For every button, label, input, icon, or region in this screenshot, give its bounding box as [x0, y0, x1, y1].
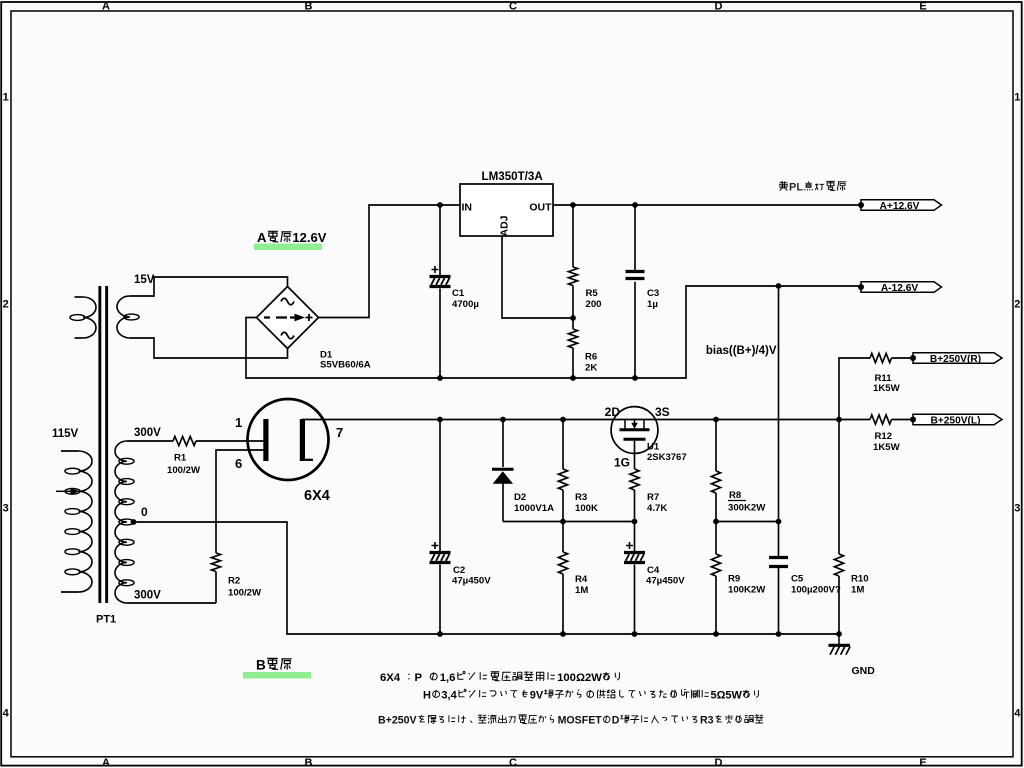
svg-text:B+250V(L): B+250V(L) — [930, 415, 980, 426]
wire ADJ pin — [502, 236, 573, 318]
svg-text:D: D — [715, 1, 723, 13]
junction C4 bottom — [632, 631, 638, 637]
svg-text:0: 0 — [141, 505, 148, 519]
svg-text:100Ω2W: 100Ω2W — [557, 672, 602, 684]
junction bias to A- line — [776, 283, 782, 289]
svg-text:4: 4 — [1014, 708, 1021, 720]
svg-text:1G: 1G — [614, 456, 630, 470]
svg-text:6: 6 — [235, 456, 242, 471]
resistor R6 — [568, 329, 577, 348]
svg-text:2K: 2K — [585, 363, 597, 374]
transformer PT1 — [61, 286, 139, 603]
junction D2 top — [500, 417, 506, 423]
wire bias line — [778, 286, 780, 522]
resistor R3 — [558, 469, 567, 490]
wire R5 top lead — [572, 205, 574, 267]
wire bridge + to LM350 IN — [319, 205, 462, 318]
svg-text:C1: C1 — [452, 288, 465, 299]
svg-text:12.6V: 12.6V — [292, 230, 326, 245]
junction ADJ/R5/R6 — [570, 315, 576, 321]
svg-text:B+250V: B+250V — [378, 715, 417, 727]
resistor R1 — [173, 436, 196, 445]
highlight B supply — [243, 672, 311, 679]
junction C2 bottom — [437, 631, 443, 637]
svg-text:R1: R1 — [174, 453, 187, 464]
svg-text:100µ200V?: 100µ200V? — [791, 585, 841, 596]
junction R8 top — [713, 417, 719, 423]
junction R5 top — [570, 202, 576, 208]
svg-text:R2: R2 — [228, 576, 240, 587]
capacitor C4 — [624, 553, 645, 563]
flag A-12.6V — [861, 282, 942, 293]
regulator U LM350 — [460, 184, 553, 236]
svg-text:1µ: 1µ — [647, 299, 658, 310]
svg-text:B: B — [305, 757, 313, 768]
svg-text:U1: U1 — [647, 442, 660, 453]
svg-text:A: A — [102, 757, 110, 768]
svg-text:A: A — [257, 230, 267, 245]
wire gate to R7 — [634, 441, 636, 469]
junction R6 bottom — [570, 375, 576, 381]
diode D2 — [492, 468, 514, 471]
svg-text:4: 4 — [3, 708, 10, 720]
svg-text:300K2W: 300K2W — [728, 503, 766, 514]
svg-text:IN: IN — [462, 202, 473, 214]
svg-text:C5: C5 — [791, 574, 804, 585]
wire C1 top — [439, 205, 441, 275]
wire pin6 to R2 — [216, 450, 264, 553]
svg-text:47µ450V: 47µ450V — [452, 576, 491, 587]
wire center tap to B- rail — [134, 522, 840, 634]
svg-text:1: 1 — [3, 92, 9, 104]
svg-text:P: P — [415, 672, 423, 684]
svg-text:1K5W: 1K5W — [873, 442, 901, 453]
svg-text:C2: C2 — [453, 565, 465, 576]
junction R9 bottom — [713, 631, 719, 637]
wire R2 bottom to 300V — [127, 572, 216, 604]
svg-text:6X4: 6X4 — [380, 672, 401, 684]
svg-text:R3: R3 — [575, 492, 587, 503]
svg-text:2D: 2D — [605, 405, 621, 419]
wire cathode pin7 B+ rail — [302, 419, 870, 421]
resistor R4 — [558, 552, 567, 574]
svg-text:OUT: OUT — [529, 202, 552, 214]
svg-text:LM350T/3A: LM350T/3A — [482, 170, 544, 183]
junction center tap — [131, 519, 137, 525]
wire C5 leads — [778, 522, 780, 635]
svg-text:1M: 1M — [575, 585, 588, 596]
svg-text:C: C — [509, 1, 517, 13]
svg-text:100/2W: 100/2W — [167, 465, 201, 476]
svg-text:3: 3 — [3, 503, 9, 515]
junction C1 top — [437, 202, 443, 208]
junction C2 top — [437, 417, 443, 423]
junction R3/R4 — [560, 519, 566, 525]
wire bridge - to A- rail — [246, 286, 861, 378]
highlight A supply — [254, 244, 322, 251]
svg-text:E: E — [919, 757, 926, 768]
resistor R11 — [870, 353, 892, 362]
svg-text:E: E — [919, 1, 926, 13]
svg-text:1K5W: 1K5W — [873, 383, 901, 394]
svg-text:R12: R12 — [875, 431, 893, 442]
junction R4 bottom — [560, 631, 566, 637]
junction R3 top — [560, 417, 566, 423]
svg-text:300V: 300V — [134, 427, 161, 439]
resistor R9 — [711, 554, 720, 576]
svg-text:1,6: 1,6 — [440, 672, 456, 684]
capacitor C3 — [626, 272, 645, 279]
capacitor C2 — [430, 553, 451, 563]
wire R1 to plate pin1 — [196, 440, 264, 442]
resistor R12 — [870, 415, 892, 424]
svg-text:4.7K: 4.7K — [647, 503, 667, 514]
wire C4 leads — [634, 522, 636, 635]
junction R7/C4 — [632, 519, 638, 525]
resistor R8 — [711, 471, 720, 493]
wire R11 to flag — [892, 357, 914, 359]
svg-text:MOSFET: MOSFET — [558, 715, 603, 727]
primary tap arrow — [56, 490, 71, 492]
svg-text:R10: R10 — [851, 574, 869, 585]
svg-text:C3: C3 — [647, 288, 659, 299]
svg-text:PT1: PT1 — [96, 614, 116, 626]
svg-text:4700µ: 4700µ — [452, 299, 479, 310]
svg-text:PL: PL — [789, 182, 803, 194]
svg-text:3: 3 — [1014, 503, 1020, 515]
svg-text:D: D — [715, 757, 723, 768]
wire 15V top to bridge — [130, 277, 288, 296]
svg-text:200: 200 — [586, 299, 602, 310]
svg-text:B: B — [256, 658, 266, 673]
ground — [838, 634, 840, 644]
wire R3 branch — [562, 420, 564, 522]
svg-text:2SK3767: 2SK3767 — [647, 452, 687, 463]
svg-text:R8: R8 — [729, 490, 742, 501]
junction C5 top — [776, 519, 782, 525]
svg-text:3S: 3S — [655, 405, 670, 419]
svg-text:A: A — [102, 1, 110, 13]
svg-text:1000V1A: 1000V1A — [514, 503, 554, 514]
svg-text:A-12.6V: A-12.6V — [881, 283, 919, 294]
wire C2 branch — [439, 420, 441, 635]
junction C3 top — [632, 202, 638, 208]
junction C1 bottom — [437, 375, 443, 381]
svg-text:2: 2 — [3, 299, 9, 311]
junction R10 top — [836, 417, 842, 423]
wire R9 leads — [715, 522, 717, 635]
svg-text:300V: 300V — [134, 590, 161, 602]
svg-text:GND: GND — [852, 665, 876, 677]
svg-text:R4: R4 — [575, 574, 588, 585]
svg-text:C: C — [509, 757, 517, 768]
wire 300V top to R1 — [127, 440, 173, 442]
svg-text:115V: 115V — [52, 428, 79, 440]
svg-text:6X4: 6X4 — [304, 488, 330, 504]
junction C5 bottom — [776, 631, 782, 637]
svg-text:2: 2 — [1014, 299, 1020, 311]
svg-text:7: 7 — [336, 425, 343, 440]
svg-text:100/2W: 100/2W — [228, 588, 262, 599]
wire R6 leads — [572, 318, 574, 378]
wire R11 branch — [839, 358, 870, 420]
wire R8 branch — [715, 420, 717, 522]
svg-text:R5: R5 — [586, 288, 599, 299]
svg-text:bias((B+)/4)V: bias((B+)/4)V — [706, 345, 777, 357]
svg-text:R7: R7 — [647, 492, 659, 503]
svg-text:100K: 100K — [575, 503, 598, 514]
junction GND — [836, 631, 842, 637]
svg-text:ADJ: ADJ — [499, 215, 511, 236]
svg-text:15V: 15V — [134, 274, 155, 286]
wire R10 leads — [838, 420, 840, 635]
resistor R10 — [834, 554, 843, 576]
flag A+12.6V — [861, 200, 942, 211]
svg-text:A+12.6V: A+12.6V — [880, 201, 920, 212]
wire D2 branch — [502, 420, 504, 522]
svg-text:D: D — [612, 715, 620, 727]
svg-text:B: B — [305, 1, 313, 13]
wire R7 bottom — [634, 490, 636, 522]
resistor R2 — [211, 553, 220, 572]
svg-text:1M: 1M — [851, 585, 864, 596]
svg-text:S5VB60/6A: S5VB60/6A — [320, 360, 371, 371]
svg-text:R3: R3 — [700, 715, 714, 727]
wire C1 bottom — [439, 289, 441, 379]
transistor U1 2SK3767 — [611, 407, 658, 454]
wire C3 branch — [634, 205, 636, 378]
svg-text:100K2W: 100K2W — [728, 585, 766, 596]
resistor R5 — [568, 267, 577, 286]
wire R12 to flag — [892, 419, 914, 421]
junction C3 bottom — [632, 375, 638, 381]
svg-text:1: 1 — [235, 415, 242, 430]
wire R8 R9 to C5 — [716, 521, 779, 523]
capacitor C5 — [769, 558, 788, 567]
svg-text:D2: D2 — [514, 492, 526, 503]
resistor R7 — [630, 469, 639, 490]
capacitor C1 — [430, 277, 451, 287]
tube V1 6X4 — [248, 399, 329, 480]
bridge rectifier D1 — [257, 287, 319, 349]
svg-text:1: 1 — [1014, 92, 1020, 104]
wire D2 to C4 mid rail — [503, 521, 635, 523]
wire 15V bottom to bridge — [130, 338, 288, 358]
svg-text:R9: R9 — [728, 574, 740, 585]
svg-text:H: H — [423, 690, 431, 702]
svg-text:B+250V(R): B+250V(R) — [930, 354, 981, 365]
svg-text:9V: 9V — [530, 690, 544, 702]
svg-text:47µ450V: 47µ450V — [646, 576, 685, 587]
junction R8/R9 — [713, 519, 719, 525]
svg-text:R6: R6 — [585, 352, 597, 363]
svg-text:3,4: 3,4 — [441, 690, 457, 702]
svg-text:C4: C4 — [647, 565, 660, 576]
flag B+250V(R) — [913, 353, 1002, 364]
svg-text:5Ω5W: 5Ω5W — [711, 690, 743, 702]
wire R5 to ADJ junction — [572, 286, 574, 319]
wire R4 leads — [562, 522, 564, 635]
wire OUT to A+ flag — [553, 204, 861, 206]
flag B+250V(L) — [913, 414, 1002, 425]
label PL note — [779, 181, 788, 190]
